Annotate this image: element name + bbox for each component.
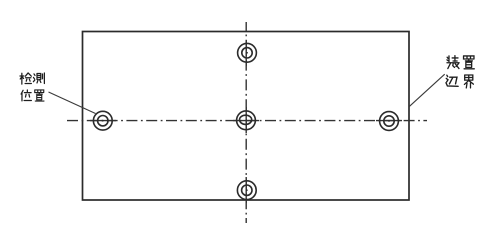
horizontal centerline [67, 120, 427, 122]
label 装置边界 [446, 56, 474, 88]
solid centerline through center circle (h) [233, 120, 259, 122]
detection circle right [380, 112, 399, 131]
vertical centerline [245, 22, 247, 223]
leader line to device boundary [410, 74, 445, 106]
leader line to detection position [49, 92, 96, 114]
detection circle center (outer) [237, 111, 256, 130]
solid centerline through bottom circle [245, 177, 247, 203]
detection circle center (inner ellipse) [240, 115, 252, 124]
detection circle left [93, 111, 112, 130]
solid centerline through right circle [376, 120, 402, 122]
solid centerline through center circle (v) [245, 107, 247, 133]
device boundary rectangle [83, 32, 410, 201]
solid centerline through top circle [245, 40, 247, 66]
label 检测位置 [20, 73, 44, 101]
detection circle bottom [237, 181, 256, 200]
detection circle top [238, 43, 257, 62]
solid centerline through left circle [90, 120, 116, 122]
